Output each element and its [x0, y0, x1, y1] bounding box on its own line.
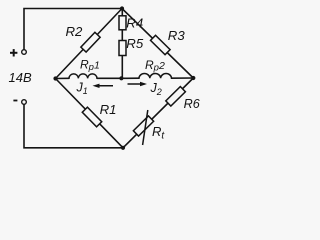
svg-text:14В: 14В [9, 70, 32, 85]
svg-text:R3: R3 [168, 28, 186, 43]
resistor R3 [151, 35, 171, 54]
thermistor strike line through Rt [143, 110, 148, 145]
svg-text:R6: R6 [184, 97, 200, 111]
svg-text:R2: R2 [66, 24, 84, 39]
node right R [191, 76, 195, 80]
plus sign [10, 49, 17, 56]
svg-text:R1: R1 [100, 102, 117, 117]
svg-text:R5: R5 [126, 36, 144, 51]
node left L [53, 76, 57, 80]
minus sign [13, 100, 17, 102]
node top T [120, 6, 124, 10]
resistor R2 [81, 32, 100, 52]
node bottom B [121, 146, 125, 150]
inductor Rp1 coil [69, 74, 97, 78]
svg-text:R4: R4 [126, 15, 143, 30]
wire diagonal T-L (R2 branch) [56, 9, 123, 79]
wire center node to coil Rp2 [121, 77, 139, 79]
resistor R5 [119, 41, 126, 56]
wire rail left node to coil Rp1 [56, 77, 70, 79]
wire diagonal L-B (R1 branch) [56, 79, 124, 148]
inductor Rp2 coil [139, 74, 171, 79]
terminal - circle [22, 100, 27, 105]
wire coil Rp2 to right node [172, 77, 194, 79]
resistor Rt [133, 116, 153, 136]
resistor R6 [166, 87, 186, 106]
current arrow J1 (pointing left) [93, 84, 114, 88]
wire from - terminal down and right to bottom node [24, 104, 123, 147]
wire vertical middle branch (R4 R5) [121, 9, 123, 79]
wire diagonal T-R (R3 branch) [122, 9, 193, 79]
node center C [119, 76, 123, 80]
current arrow J2 (pointing right) [128, 82, 148, 86]
wire coil Rp1 to center node [97, 77, 121, 79]
wire from + terminal up and right to top node [24, 9, 122, 50]
resistor R4 [119, 16, 126, 30]
resistor R1 [82, 107, 101, 127]
terminal + circle [22, 50, 27, 55]
wire diagonal B-R (Rt R6 branch) [123, 78, 193, 148]
